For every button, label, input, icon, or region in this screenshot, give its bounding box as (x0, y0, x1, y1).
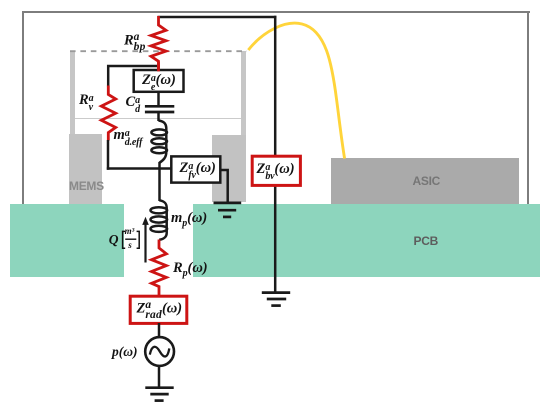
package lid frame top (22, 11, 530, 14)
label MEMS (69, 179, 104, 193)
MEMS backplate wall right (241, 51, 246, 203)
wire Zrad to source (158, 323, 161, 338)
MEMS substrate pillar left (69, 134, 103, 204)
PCB left block (10, 204, 124, 277)
wire diaphragm node down to port (158, 162, 161, 201)
box Z_rad (130, 296, 187, 323)
ground for Zbv branch (262, 293, 290, 306)
label R_v (79, 93, 93, 112)
label Z_e (142, 73, 176, 92)
ground for source (145, 388, 173, 401)
label R_bp (124, 32, 146, 53)
source p(w) circle (145, 337, 174, 366)
wire Zfv to ground (220, 170, 227, 203)
capacitor C_d (145, 106, 174, 112)
package lid frame left (22, 11, 25, 205)
source sine symbol (150, 347, 170, 357)
package lid frame right (527, 11, 530, 205)
resistor R_bp (151, 16, 166, 71)
ground for Zfv (214, 203, 242, 217)
ASIC die (331, 158, 520, 204)
MEMS substrate pillar right (212, 135, 246, 203)
inductor m_d,eff (151, 121, 167, 163)
inductor m_p (151, 200, 168, 240)
wire Ze to capacitor (157, 91, 160, 105)
label R_p (173, 261, 208, 279)
volume velocity arrow Q (144, 224, 146, 263)
label m_p (171, 211, 207, 229)
label ASIC (413, 174, 440, 188)
wire Zbv branch vertical (274, 16, 277, 292)
wire R_bp into Z_e box (157, 62, 160, 71)
label p (112, 345, 138, 359)
MEMS backplate wall left (70, 51, 75, 204)
label Q (109, 233, 119, 247)
MEMS membrane line (75, 118, 241, 120)
label PCB (414, 234, 438, 248)
resistor R_p (152, 240, 167, 297)
yellow bond wire (248, 23, 344, 158)
resistor R_v (101, 86, 115, 141)
wire source to ground (158, 366, 161, 388)
label Z_rad (137, 300, 183, 321)
wire top horizontal node to Zbv branch (158, 16, 277, 19)
wire node A to Rv (108, 66, 160, 87)
PCB right block (193, 204, 540, 277)
wire capacitor to coil (157, 113, 160, 121)
label m_d.eff (114, 128, 143, 147)
label C_d (126, 95, 140, 114)
wire bottom horizontal to Zfv (107, 167, 172, 170)
label Z_fv (180, 161, 216, 180)
Q unit brackets and fraction bar (123, 231, 140, 248)
box Z_fv (171, 156, 220, 182)
label Z_bv (257, 162, 295, 181)
box Z_e (134, 70, 184, 92)
box Z_bv (252, 156, 300, 185)
wire Rv bottom (107, 140, 110, 170)
backplate dashed top line (70, 50, 247, 52)
